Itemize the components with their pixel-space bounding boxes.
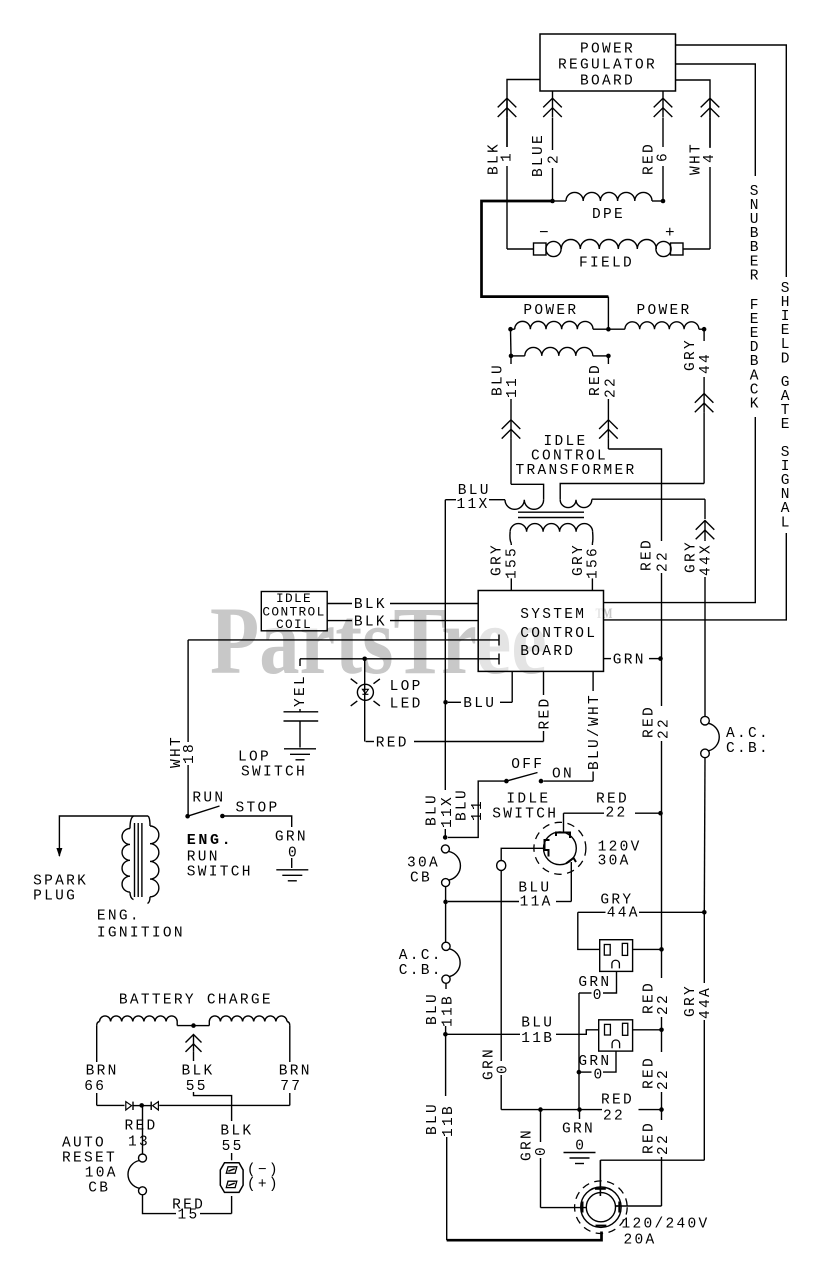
wire RED 6 vertical	[662, 91, 664, 98]
wire J2 right lead	[616, 1205, 618, 1207]
power regulator board U1 box	[540, 34, 676, 91]
outlet O2 slots	[605, 1024, 611, 1035]
svg-text:SWITCH: SWITCH	[241, 765, 307, 781]
svg-text:BLK: BLK	[182, 1064, 215, 1080]
node GRN junction left	[577, 1070, 582, 1075]
receptacle J2 body	[581, 1187, 621, 1227]
wire BRN 77 vertical	[289, 1026, 291, 1062]
svg-text:30A: 30A	[598, 854, 631, 870]
svg-text:55: 55	[186, 1079, 208, 1095]
node power w1 left	[508, 327, 513, 332]
ground LOP switch	[284, 748, 316, 750]
node LED junction	[362, 657, 367, 662]
node power junction	[606, 327, 611, 332]
svg-text:BOARD: BOARD	[580, 74, 635, 90]
svg-text:BRN: BRN	[86, 1064, 119, 1080]
node BLU 11B junction	[443, 1032, 448, 1037]
wire BLU 11B vertical lower	[445, 1034, 447, 1096]
svg-text:22: 22	[656, 1068, 672, 1090]
node RED22 junction b	[658, 811, 663, 816]
svg-text:A.C.: A.C.	[399, 948, 443, 964]
svg-text:120/240V: 120/240V	[622, 1217, 710, 1233]
inductor DPE coil	[566, 192, 652, 201]
wire outlet O2 ground	[603, 1051, 616, 1072]
inductor battery winding right	[209, 1016, 287, 1022]
svg-text:ON: ON	[552, 767, 574, 783]
wire spark plug lead	[59, 816, 148, 856]
wire J1 left lead	[501, 848, 543, 860]
svg-text:ENG.: ENG.	[97, 909, 141, 925]
svg-text:YEL: YEL	[293, 674, 309, 707]
wire WHT 18 horizontal run	[188, 639, 499, 641]
svg-text:PLUG: PLUG	[33, 889, 77, 905]
wire outlet O1 ground	[603, 971, 617, 993]
wire idle switch left leg	[448, 781, 506, 837]
transformer T1 primary right half	[560, 500, 592, 508]
battery connector	[220, 1163, 243, 1193]
wire GRY 44A horizontal	[639, 911, 704, 913]
wire GRN bus	[501, 1109, 540, 1111]
svg-text:REGULATOR: REGULATOR	[558, 58, 657, 74]
svg-text:E: E	[781, 417, 792, 433]
svg-text:30A: 30A	[407, 856, 440, 872]
wire GRY 44 vertical	[703, 329, 705, 341]
node run switch right terminal	[220, 814, 225, 819]
wire GRY 156 pin	[591, 543, 593, 545]
wire GRY 44 to primary right half	[560, 484, 704, 498]
svg-text:IGNITION: IGNITION	[97, 926, 185, 942]
wire shield gate signal top run	[676, 45, 787, 277]
svg-text:SWITCH: SWITCH	[492, 807, 558, 823]
svg-text:11X: 11X	[440, 795, 456, 828]
svg-text:GRY: GRY	[684, 540, 700, 573]
wire GRN down to bus	[578, 1072, 580, 1110]
node outlet O2 junction	[659, 1028, 664, 1033]
node run switch left terminal	[185, 814, 190, 819]
svg-text:20A: 20A	[624, 1233, 657, 1249]
wire RED 22 long vertical	[661, 540, 663, 541]
outlet O1 box	[600, 940, 633, 972]
svg-text:BLK: BLK	[354, 615, 387, 631]
receptacle J1 bottom slot	[566, 858, 576, 864]
wire J2 left lead	[585, 1207, 588, 1209]
svg-text:(+): (+)	[247, 1177, 280, 1193]
node BLU 11A junction	[443, 900, 448, 905]
inductor power winding 3	[525, 347, 593, 356]
wire WHT 4 top run	[676, 80, 711, 147]
svg-text:POWER: POWER	[580, 42, 635, 58]
svg-text:POWER: POWER	[637, 303, 692, 319]
svg-text:22: 22	[606, 806, 628, 822]
wire BLU 11B to outlet O2	[445, 1033, 520, 1035]
svg-text:18: 18	[182, 742, 198, 764]
svg-text:LOP: LOP	[390, 679, 423, 695]
svg-text:6: 6	[656, 151, 672, 162]
svg-text:22: 22	[603, 1109, 625, 1125]
svg-text:GRY: GRY	[571, 543, 587, 576]
svg-text:55: 55	[222, 1139, 244, 1155]
svg-text:GRY: GRY	[683, 984, 699, 1017]
node 30A CB top junction	[443, 835, 448, 840]
svg-text:BLU: BLU	[463, 696, 496, 712]
wire STOP to ground	[222, 816, 291, 827]
receptacle J2 slots	[595, 1188, 606, 1190]
svg-text:COIL: COIL	[276, 617, 312, 632]
receptacle J1 top slot	[556, 833, 570, 839]
inductor power winding 2	[608, 328, 625, 330]
svg-text:22: 22	[656, 550, 672, 572]
wire J2 top lead	[599, 1160, 601, 1196]
svg-text:L: L	[781, 515, 792, 531]
node bus junction 3	[659, 1107, 664, 1112]
svg-text:44A: 44A	[607, 906, 640, 922]
wire BLK 1 top jog	[507, 80, 540, 148]
svg-text:CB: CB	[410, 871, 432, 887]
svg-text:13: 13	[128, 1135, 150, 1151]
svg-text:RED: RED	[376, 736, 409, 752]
wire BLK 55 run	[194, 1092, 232, 1121]
wire center tap chevrons	[186, 1035, 202, 1043]
svg-text:GRY: GRY	[683, 338, 699, 371]
svg-text:0: 0	[593, 988, 604, 1004]
node power w2 right	[702, 327, 707, 332]
idle control coil L1 box	[261, 592, 327, 631]
wire BLU 11A	[556, 901, 571, 903]
wire thick exciter run	[482, 201, 609, 297]
node bus junction 2	[577, 1107, 582, 1112]
svg-text:155: 155	[505, 546, 521, 579]
wire BLU 11X entry	[445, 499, 456, 501]
field terminal left	[534, 243, 547, 255]
LED D1 lamp	[357, 684, 373, 700]
svg-text:0: 0	[594, 1068, 605, 1084]
wire battery bottom run	[97, 1104, 125, 1106]
svg-text:GRN: GRN	[613, 653, 646, 669]
wire snubber feedback lower run	[604, 417, 756, 603]
breaker AC CB right	[701, 716, 710, 725]
wire thick bottom	[447, 1232, 602, 1241]
svg-text:11B: 11B	[441, 1104, 457, 1137]
capacitor LOP switch plates	[284, 711, 319, 713]
svg-text:44: 44	[698, 352, 714, 374]
receptacle J1 left slot	[545, 840, 550, 857]
svg-text:11X: 11X	[457, 497, 490, 513]
wire to auto reset CB	[142, 1105, 144, 1154]
svg-text:22: 22	[656, 1133, 672, 1155]
svg-text:BLU: BLU	[425, 992, 441, 1025]
svg-text:BLK: BLK	[220, 1124, 253, 1140]
transformer T2 ignition secondary	[148, 816, 150, 826]
svg-text:TRANSFORMER: TRANSFORMER	[515, 463, 636, 479]
inductor battery winding left	[100, 1016, 178, 1022]
ground bus ground	[564, 1152, 596, 1154]
wire RED 15 run	[143, 1195, 177, 1214]
svg-text:BLU/WHT: BLU/WHT	[587, 693, 603, 770]
receptacle J1 dashed ring	[534, 822, 586, 874]
transformer T1 core	[518, 511, 584, 513]
svg-text:11A: 11A	[520, 895, 553, 911]
node idle switch right terminal	[539, 779, 544, 784]
svg-text:BLUE: BLUE	[531, 133, 547, 177]
svg-text:0: 0	[495, 1063, 511, 1074]
diode D2	[126, 1102, 132, 1110]
svg-text:2: 2	[547, 153, 563, 164]
svg-text:BLU: BLU	[425, 1102, 441, 1135]
svg-text:11B: 11B	[521, 1031, 554, 1047]
wire shield gate signal lower run	[604, 533, 787, 620]
svg-text:10A: 10A	[85, 1166, 118, 1182]
system control board U2 box	[478, 591, 603, 672]
node bus junction 1	[538, 1107, 543, 1112]
wire LOP line horizontal run	[300, 658, 363, 660]
wire GRY 44X run	[592, 498, 705, 500]
svg-text:GRY: GRY	[490, 543, 506, 576]
wire YEL vertical	[299, 659, 301, 666]
svg-text:0: 0	[288, 846, 299, 862]
svg-text:D: D	[781, 351, 792, 367]
svg-text:CONTROL: CONTROL	[520, 626, 597, 642]
svg-text:FIELD: FIELD	[579, 256, 634, 272]
wire cap to ground	[299, 721, 301, 748]
wire J1 bottom lead	[570, 862, 572, 902]
wire RED 22 vertical	[607, 356, 609, 364]
wire GRN ground stub	[579, 1110, 581, 1119]
svg-text:22: 22	[656, 993, 672, 1015]
inductor power winding 1	[511, 328, 515, 330]
wire BLU 11 vertical	[510, 356, 512, 364]
svg-text:RED: RED	[642, 705, 658, 738]
receptacle J2 dashed ring	[575, 1181, 628, 1234]
svg-text:11B: 11B	[440, 994, 456, 1027]
wire outlet O1 right	[633, 948, 660, 950]
svg-text:0: 0	[534, 1145, 550, 1156]
svg-text:C.B.: C.B.	[399, 963, 443, 979]
board pin tick upper	[498, 635, 500, 646]
svg-text:BRN: BRN	[279, 1064, 312, 1080]
svg-text:RESET: RESET	[62, 1151, 117, 1167]
svg-text:AUTO: AUTO	[62, 1136, 106, 1152]
transformer T2 ignition primary	[130, 816, 134, 829]
switch S1 eng run blade	[188, 806, 220, 816]
svg-text:RED: RED	[640, 538, 656, 571]
svg-text:RED: RED	[125, 1119, 158, 1135]
svg-text:K: K	[750, 396, 761, 412]
svg-text:−: −	[539, 224, 549, 242]
svg-text:POWER: POWER	[523, 303, 578, 319]
wire J1 top lead	[563, 813, 565, 833]
svg-text:RUN: RUN	[192, 791, 225, 807]
svg-text:DPE: DPE	[592, 207, 625, 223]
board pin tick lower	[498, 654, 500, 665]
svg-text:156: 156	[586, 546, 602, 579]
wire LED top	[364, 659, 366, 742]
diode D3	[153, 1102, 159, 1110]
svg-text:1: 1	[499, 151, 515, 162]
wire RED 22 jog to long vertical	[608, 449, 661, 540]
wire GRY44A vertical	[703, 758, 706, 911]
breaker AC CB left	[442, 942, 450, 950]
svg-text:SWITCH: SWITCH	[187, 865, 253, 881]
wire BLK lower	[327, 620, 352, 622]
wire outlet O2 right	[633, 1029, 660, 1031]
receptacle J1 body	[544, 832, 577, 865]
wire BLUE 2 vertical	[552, 91, 554, 98]
svg-text:BLK: BLK	[354, 597, 387, 613]
wire BLK upper	[327, 603, 352, 605]
outlet O2 box	[599, 1020, 633, 1051]
wire BLU 11 to primary left half	[511, 484, 544, 497]
outlet O1 slots	[604, 945, 610, 956]
svg-text:STOP: STOP	[236, 801, 280, 817]
svg-text:22: 22	[657, 717, 673, 739]
wire RED 22 from J1	[564, 812, 605, 814]
node GRY 44A junction	[702, 910, 707, 915]
svg-text:BLU: BLU	[521, 1016, 554, 1032]
wire from thick corner to power junction	[607, 297, 609, 330]
node power w3 left	[509, 354, 514, 359]
svg-text:C.B.: C.B.	[726, 741, 770, 757]
node power w3 right	[606, 354, 611, 359]
wire BRN 66 vertical	[96, 1026, 98, 1062]
svg-text:LOP: LOP	[238, 750, 271, 766]
svg-text:RED: RED	[538, 696, 554, 729]
node diode junction	[139, 1103, 144, 1108]
terminal oval	[497, 861, 506, 871]
svg-text:IDLE: IDLE	[506, 792, 550, 808]
svg-text:+: +	[665, 224, 675, 242]
wire BLU/WHT pin	[592, 671, 594, 691]
wire CB link	[445, 902, 447, 942]
node outlet O1 junction	[659, 947, 664, 952]
svg-text:22: 22	[604, 376, 620, 398]
svg-text:LED: LED	[390, 697, 423, 713]
svg-text:OFF: OFF	[511, 757, 544, 773]
svg-text:BOARD: BOARD	[520, 644, 575, 660]
inductor FIELD coil	[561, 240, 656, 249]
node GRN junction	[658, 656, 663, 661]
wire GRN from oval	[500, 871, 502, 1062]
wire CB to BLU11A node	[445, 887, 447, 900]
svg-text:RED: RED	[588, 363, 604, 396]
svg-text:44X: 44X	[699, 543, 715, 576]
wire BLU 11B vertical upper	[445, 983, 447, 989]
node idle switch left terminal	[504, 779, 509, 784]
wire power winding 2 tail	[699, 328, 704, 330]
wire BLU 11X long vertical	[444, 500, 446, 790]
svg-text:66: 66	[84, 1079, 106, 1095]
transformer T2 core	[134, 823, 136, 897]
svg-text:ENG.: ENG.	[187, 832, 233, 849]
wire BLU pin	[511, 671, 513, 702]
wire RED pin	[543, 671, 545, 695]
wire BLU11 upper link	[510, 329, 513, 356]
svg-text:CB: CB	[88, 1181, 110, 1197]
wire GRN branch to J2	[540, 1110, 542, 1142]
wire WHT 18 vertical	[187, 640, 189, 742]
svg-text:BLU: BLU	[455, 788, 471, 821]
spark plug arrow	[56, 848, 62, 857]
svg-text:44A: 44A	[698, 986, 714, 1019]
breaker 30A CB	[441, 845, 449, 853]
node DPE right junction	[661, 199, 666, 204]
field terminal right	[671, 243, 684, 255]
wire GRY 155 pin	[510, 543, 512, 545]
svg-text:A.C.: A.C.	[726, 726, 770, 742]
wire GRN right	[604, 658, 612, 660]
svg-text:BLU: BLU	[425, 793, 441, 826]
breaker auto reset CB	[139, 1154, 147, 1162]
wire snubber feedback top run	[676, 64, 756, 176]
svg-text:11: 11	[470, 799, 486, 821]
svg-text:4: 4	[702, 152, 718, 163]
node DPE left junction	[550, 199, 555, 204]
ground eng run	[276, 869, 308, 871]
wire WHT 4 vertical	[701, 98, 720, 107]
svg-text:15: 15	[178, 1208, 200, 1224]
node battery center tap	[191, 1023, 196, 1028]
wire BLK 1 vertical	[498, 98, 517, 107]
svg-text:R: R	[750, 268, 761, 284]
transformer T1 primary left half	[505, 500, 544, 510]
transformer T1 secondary	[510, 524, 592, 532]
wire LED bottom	[365, 741, 367, 743]
node BLU junction on 11X	[443, 700, 448, 705]
switch S2 idle blade	[506, 773, 537, 782]
svg-text:RUN: RUN	[187, 850, 220, 866]
svg-text:RED: RED	[601, 1093, 634, 1109]
svg-text:SPARK: SPARK	[33, 874, 88, 890]
svg-text:GRN: GRN	[275, 830, 308, 846]
svg-text:SYSTEM: SYSTEM	[520, 607, 586, 623]
svg-text:77: 77	[280, 1079, 302, 1095]
svg-text:BATTERY CHARGE: BATTERY CHARGE	[119, 993, 273, 1009]
svg-text:GRN: GRN	[562, 1122, 595, 1138]
svg-text:11: 11	[505, 376, 521, 398]
